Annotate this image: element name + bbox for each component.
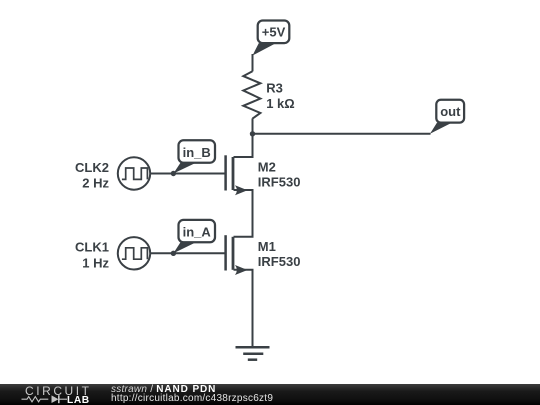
junction dot in_A [171,251,176,256]
node junction dot [250,131,255,136]
ground [236,347,270,359]
wire R3 to node [252,118,254,134]
wire +5V to R3 [252,54,254,71]
wire M2 drain [234,134,253,157]
svg-text:1 Hz: 1 Hz [82,255,109,270]
svg-text:in_A: in_A [183,225,212,240]
label M2 IRF530 [258,160,301,190]
net flag in_B [173,140,215,173]
svg-text:2 Hz: 2 Hz [82,176,109,191]
net flag out [430,100,464,134]
label CLK1 1 Hz [75,240,109,271]
footer bar [0,384,540,405]
label M1 IRF530 [258,239,301,269]
svg-text:1 kΩ: 1 kΩ [266,96,295,111]
transistor M1 [226,235,248,275]
svg-text:IRF530: IRF530 [258,254,301,269]
svg-text:CLK2: CLK2 [75,160,109,175]
wire M1 source to ground [234,270,253,348]
resistor R3 [243,71,260,118]
wire node to out [253,133,431,135]
wire CLK1 to M1 gate [150,252,225,254]
svg-text:+5V: +5V [262,25,286,40]
clock source CLK2 [118,157,150,189]
label R3 1 kOhm [266,81,295,112]
net flag in_A [173,220,215,253]
svg-text:in_B: in_B [183,145,211,160]
wire CLK2 to M2 gate [150,173,225,175]
svg-text:R3: R3 [266,81,283,96]
svg-text:out: out [440,104,461,119]
footer credit text [111,385,273,404]
svg-text:CLK1: CLK1 [75,240,109,255]
svg-text:LAB: LAB [67,395,90,405]
svg-text:M2: M2 [258,160,276,175]
transistor M2 [226,155,248,195]
power flag +5V [253,21,290,56]
label CLK2 2 Hz [75,160,109,191]
clock source CLK1 [118,237,150,269]
wire M2 source to M1 drain [234,190,253,237]
svg-text:M1: M1 [258,239,276,254]
svg-text:IRF530: IRF530 [258,174,301,189]
CircuitLab logo [0,384,100,405]
junction dot in_B [171,171,176,176]
